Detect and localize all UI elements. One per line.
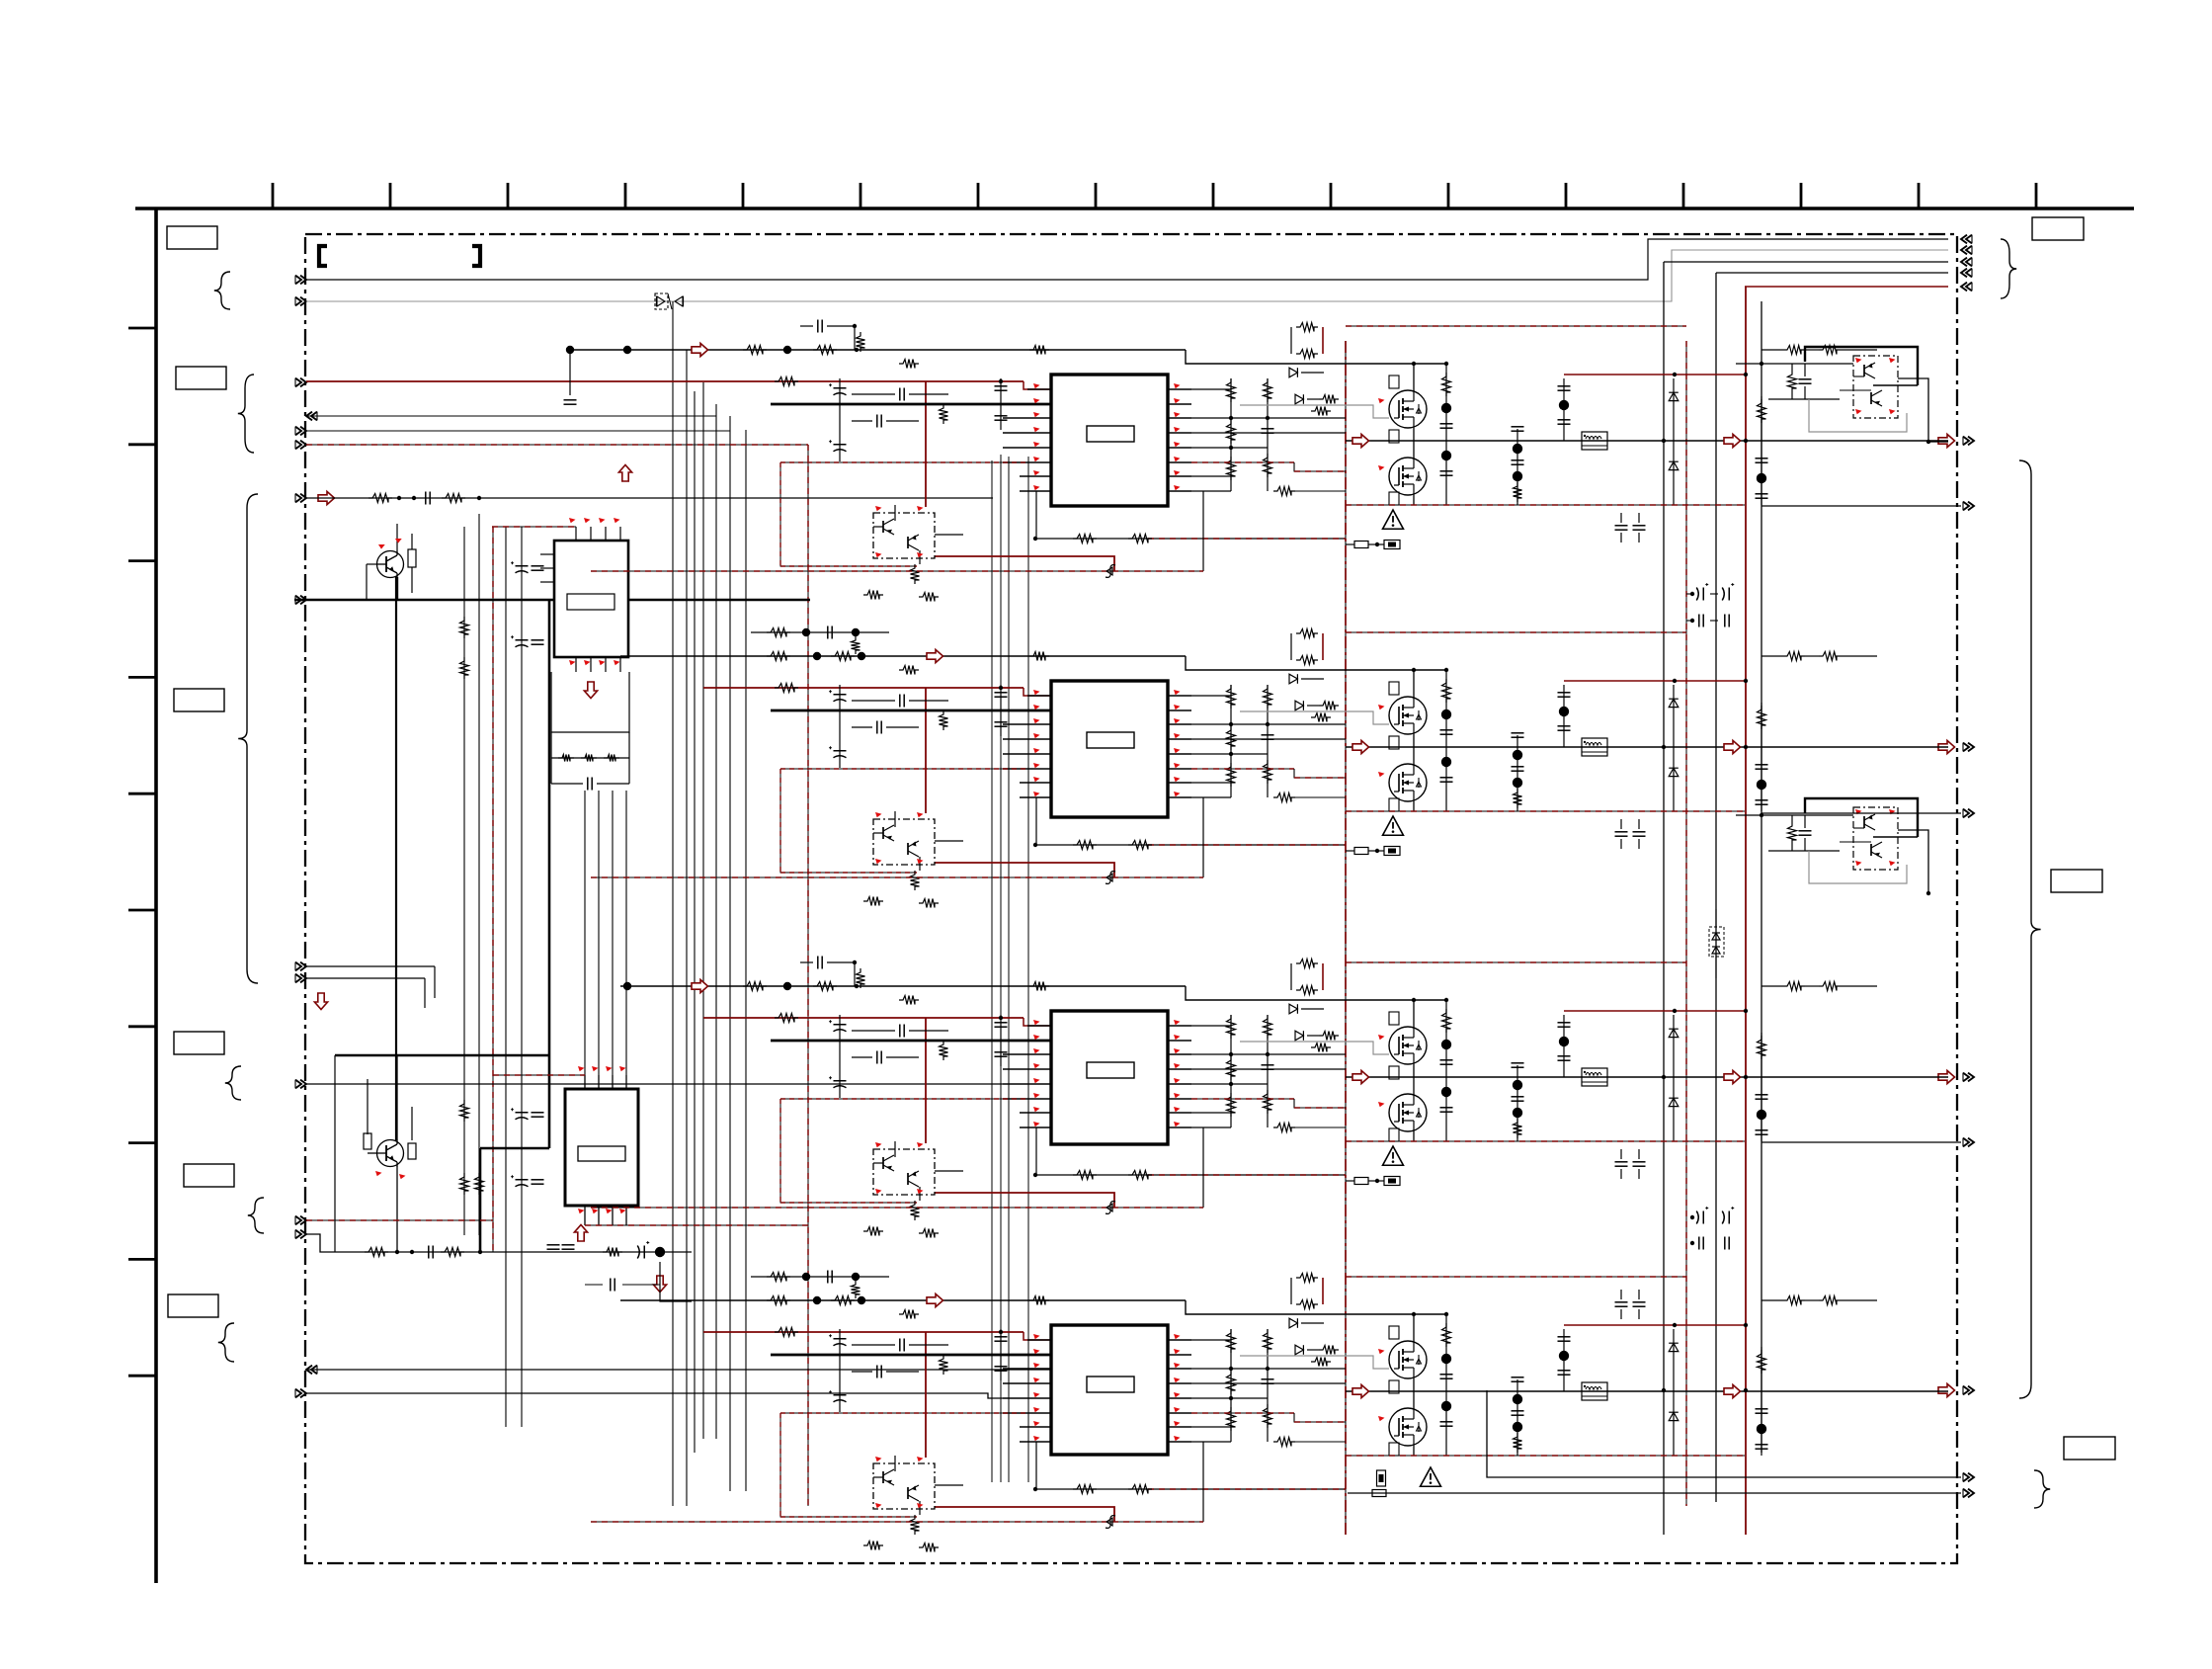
channel 3 transistor pair box bbox=[873, 1149, 935, 1195]
channel 1 fusible resistors bbox=[1354, 542, 1368, 548]
channel 3 snubber caps bbox=[1615, 1161, 1628, 1163]
bus line top 3 bbox=[1664, 261, 1948, 263]
channel 4 pre-driver diodes bbox=[1296, 1274, 1318, 1283]
U2 bottom pins bbox=[584, 1206, 586, 1225]
channel 1 maroon loop around driver pair bbox=[925, 381, 927, 507]
channel 1 output line bbox=[1346, 440, 1948, 442]
channel 2 zobel column 2 bbox=[1516, 735, 1518, 811]
B red dashed input bbox=[306, 1219, 493, 1221]
channel 1 pre-driver diodes bbox=[1296, 323, 1318, 332]
channel 4 IC pins bbox=[1027, 1339, 1051, 1341]
bus line top 1 bbox=[306, 239, 1948, 280]
channel 2 fusible resistors bbox=[1354, 848, 1368, 855]
channel 1 transistor pair box bbox=[873, 513, 935, 558]
B area e-caps bbox=[516, 1112, 529, 1114]
channel 3 zobel column 2 bbox=[1516, 1065, 1518, 1141]
channel 2 left e-caps bbox=[839, 685, 841, 768]
thick input line A bbox=[294, 599, 554, 602]
channel 4 zobel column 3 bbox=[1563, 1329, 1565, 1391]
channel 4 right pin wires bbox=[1191, 1339, 1231, 1341]
channel 2 right pin wires bbox=[1191, 695, 1231, 697]
input connectors ch3-4 bbox=[295, 1216, 301, 1225]
U2 red dashed feed bbox=[493, 1074, 585, 1076]
channel 3 IC pins bbox=[1027, 1025, 1051, 1027]
speaker relay 2 red ticks bbox=[1855, 809, 1862, 814]
red dashed rail mid bbox=[492, 527, 494, 1252]
black rail x1684 bbox=[1663, 262, 1665, 1535]
Q2 base resistor box bbox=[364, 1133, 371, 1149]
maroon rail x1767 bbox=[1745, 287, 1747, 1535]
channel 3 upper RC row bbox=[817, 957, 819, 969]
channel 3 thick bias line bbox=[771, 1040, 1051, 1043]
channel 3 power-amp IC bbox=[1051, 1011, 1168, 1144]
speaker relay 1 thick frame bbox=[1805, 347, 1918, 385]
driver block A input line bbox=[306, 497, 993, 499]
input connector ch1-2 audio in bbox=[295, 494, 301, 503]
channel 1 gate line gray bbox=[1240, 405, 1389, 418]
channel 2 snubber caps bbox=[1615, 831, 1628, 833]
channel 4 power-amp IC bbox=[1051, 1325, 1168, 1455]
channel 1 maroon link top bbox=[1564, 374, 1746, 376]
channel 1 warning mark bbox=[1383, 510, 1404, 529]
channel 1 right column passives bbox=[1761, 396, 1762, 505]
U1 top pins bbox=[575, 527, 577, 541]
channel 2 far right resistors bbox=[1783, 652, 1805, 661]
channel 2 output line bbox=[1346, 746, 1948, 748]
channel 1 power-amp IC bbox=[1051, 375, 1168, 506]
speaker relay 1 feed wires bbox=[1736, 363, 1853, 365]
bus line top 2 bbox=[306, 250, 1948, 301]
dual diode pack on line 2 bbox=[655, 293, 668, 309]
channel 3 left e-caps bbox=[839, 1015, 841, 1098]
main block dash-dot border bbox=[305, 234, 1957, 1563]
channel 2 right resistor columns bbox=[1230, 685, 1232, 797]
right second outputs bbox=[1761, 505, 1961, 507]
channel 4 output bead bbox=[1582, 1382, 1607, 1400]
channel 3 far right resistors bbox=[1783, 982, 1805, 991]
channel 1 upper RC row bbox=[817, 320, 819, 333]
channel 2 rail diodes bbox=[1673, 685, 1675, 811]
channel 1 left e-caps bbox=[839, 378, 841, 461]
channel 3 rail diodes bbox=[1673, 1015, 1675, 1141]
mid vertical bus bundle bbox=[672, 301, 674, 1506]
line in 417 bbox=[306, 415, 716, 417]
speaker relay 2 gray loop bbox=[1809, 851, 1907, 883]
bottom right output lines bbox=[1487, 1390, 1961, 1477]
channel 3 zobel column 3 bbox=[1563, 1015, 1565, 1077]
channel 1 dashed net top bbox=[1346, 325, 1686, 327]
channel 4 maroon drive line bbox=[703, 1331, 1024, 1333]
A area resistors bbox=[460, 617, 469, 638]
channel 2 dashed net top bbox=[1346, 631, 1686, 633]
speaker relay 1 red ticks bbox=[1855, 358, 1862, 363]
channel 1 thick bias line bbox=[771, 403, 1051, 406]
channel 2 upper RC row bbox=[751, 631, 889, 633]
speaker relay 1 dash-dot box bbox=[1853, 356, 1898, 418]
bottom right connectors bbox=[1963, 1473, 1969, 1482]
line in 438 bbox=[306, 430, 730, 432]
channel 2 zobel column 1 bbox=[1445, 670, 1447, 811]
speaker relay 2 dash-dot box bbox=[1853, 807, 1898, 870]
channel 4 dashed net bottom bbox=[1346, 1455, 1745, 1457]
channel 1 input line bbox=[620, 349, 1186, 351]
left margin braces bbox=[214, 272, 230, 309]
channel 2 dashed net bottom bbox=[1346, 810, 1745, 812]
channel 4 MOSFET upper bbox=[1389, 1341, 1427, 1378]
red dash-dot power rail left bbox=[1345, 341, 1347, 1535]
channel 2 warning mark bbox=[1383, 816, 1404, 835]
input connectors left group 2 bbox=[295, 378, 301, 387]
channel 4 zobel column 1 bbox=[1445, 1314, 1447, 1456]
channel 1 IC pins bbox=[1027, 388, 1051, 390]
channel 4 right column passives bbox=[1761, 1347, 1762, 1456]
channel 1 left caps bbox=[1000, 378, 1002, 430]
channel 3 pre-driver diodes bbox=[1296, 960, 1318, 968]
driver IC U1 bbox=[554, 541, 628, 657]
channel 4 MOSFET lower bbox=[1389, 1408, 1427, 1446]
channel 3 fusible resistors bbox=[1354, 1178, 1368, 1185]
channel 4 snubber caps bbox=[1615, 1301, 1628, 1303]
vertical bus right of left-blocks bbox=[463, 527, 465, 1235]
red dashed input ch1 bbox=[306, 444, 808, 446]
input connectors left top group bbox=[295, 276, 301, 285]
channel 4 maroon loop around driver pair bbox=[925, 1332, 927, 1458]
input transistor Q1 bbox=[377, 551, 404, 578]
speaker relay 2 output stub bbox=[1898, 830, 1928, 893]
B area resistors bbox=[460, 1100, 469, 1122]
channel 1 maroon drive line bbox=[306, 380, 1024, 382]
channel 4 left e-caps bbox=[839, 1329, 841, 1412]
top right e-cap bank bbox=[1702, 588, 1704, 601]
B vertical wires bbox=[334, 1055, 336, 1252]
channel 3 MOSFET upper bbox=[1389, 1027, 1427, 1064]
speaker relay 1 res cap bbox=[1788, 371, 1797, 392]
channel 4 output line bbox=[1346, 1390, 1948, 1392]
right mid e-cap bank 2 bbox=[1702, 1211, 1704, 1224]
channel 3 left caps bbox=[1000, 1015, 1002, 1066]
driver IC U2 bbox=[565, 1089, 638, 1206]
Q1 collector resistor bbox=[408, 549, 416, 567]
channel 1 zobel column 1 bbox=[1445, 364, 1447, 505]
page border ruler left bbox=[154, 209, 158, 1583]
output connectors right top group bbox=[1966, 235, 1972, 244]
channel 4 input line bbox=[620, 1299, 1186, 1301]
feedback RC box below U1 bbox=[551, 672, 629, 732]
channel 4 fusible resistors bbox=[1377, 1470, 1386, 1486]
right rail junction dots bbox=[1662, 439, 1666, 443]
right margin label boxes bbox=[2032, 217, 2084, 240]
speaker relay 1 gray loop bbox=[1809, 399, 1907, 432]
black rail x1783 bbox=[1761, 301, 1762, 1453]
U2 top pins bbox=[584, 1075, 586, 1089]
channel 1 zobel column 2 bbox=[1516, 429, 1518, 505]
channel 4 dashed net top bbox=[1346, 1276, 1686, 1278]
channel 4 far right resistors bbox=[1783, 1296, 1805, 1305]
page border ruler top bbox=[135, 207, 2134, 210]
speaker relay 1 transistor upper bbox=[1863, 365, 1865, 376]
red dashed into U1 bbox=[492, 526, 576, 528]
channel 2 MOSFET lower bbox=[1389, 764, 1427, 801]
U1 left pins bbox=[540, 553, 554, 555]
channel 2 power-amp IC bbox=[1051, 681, 1168, 817]
right margin braces bbox=[2001, 239, 2016, 298]
channel 4 transistor pair box bbox=[873, 1463, 935, 1509]
right dashed-dot border stub bbox=[1928, 441, 1948, 443]
channel 1 MOSFET upper bbox=[1389, 390, 1427, 428]
channel 4 warning mark bbox=[1421, 1467, 1441, 1486]
channel 2 MOSFET upper bbox=[1389, 697, 1427, 734]
channel 2 maroon loop around driver pair bbox=[925, 688, 927, 813]
channel 3 maroon link top bbox=[1564, 1010, 1746, 1012]
black rail x1737 bbox=[1715, 273, 1717, 1502]
channel 2 input line bbox=[620, 655, 1186, 657]
channel 2 output bead bbox=[1582, 738, 1607, 756]
channel 3 dashed net top bbox=[1346, 961, 1686, 963]
channel 3 maroon loop around driver pair bbox=[925, 1018, 927, 1143]
channel 3 right pin wires bbox=[1191, 1025, 1231, 1027]
channel 4 zobel column 2 bbox=[1516, 1379, 1518, 1456]
channel 4 feedback loop bbox=[1033, 1487, 1037, 1491]
B down arrow and route bbox=[653, 1276, 666, 1293]
speaker relay 2 thick frame bbox=[1805, 798, 1918, 837]
channel 3 gate line gray bbox=[1240, 1042, 1389, 1054]
channel 3 input line bbox=[620, 985, 1186, 987]
channel 3 maroon drive line bbox=[703, 1017, 1024, 1019]
channel 2 maroon drive line bbox=[703, 687, 1024, 689]
speaker relay 2 transistor lower bbox=[1870, 844, 1872, 856]
red dashed rail right bbox=[1685, 341, 1687, 1506]
channel 2 IC pins bbox=[1027, 695, 1051, 697]
channel 1 snubber caps bbox=[1615, 525, 1628, 527]
channel 3 output bead bbox=[1582, 1068, 1607, 1086]
channel 1 output bead bbox=[1582, 432, 1607, 450]
speaker relay 1 transistor lower bbox=[1870, 392, 1872, 404]
channel 1 source cap detail bbox=[566, 346, 574, 354]
A area e-caps bbox=[516, 565, 529, 567]
B lower inputs bbox=[306, 1369, 1051, 1371]
channel 1 rail diodes bbox=[1673, 378, 1675, 505]
channel 3 MOSFET lower bbox=[1389, 1094, 1427, 1131]
channel 3 warning mark bbox=[1383, 1146, 1404, 1165]
feedback columns x1021 x1041 bbox=[1008, 457, 1010, 1482]
channel 4 upper RC row bbox=[751, 1276, 889, 1278]
speaker relay 2 res cap bbox=[1788, 822, 1797, 844]
channel 2 gate line gray bbox=[1240, 711, 1389, 724]
channel 1 feedback loop bbox=[1033, 537, 1037, 541]
channel 3 right resistor columns bbox=[1230, 1015, 1232, 1127]
driver block B transistor Q2 bbox=[377, 1140, 404, 1167]
B input row bbox=[306, 1234, 585, 1252]
channel 4 gate line gray bbox=[1240, 1356, 1389, 1369]
channel 4 right resistor columns bbox=[1230, 1329, 1232, 1442]
channel 3 feedback loop bbox=[1033, 1173, 1037, 1177]
left margin label boxes bbox=[167, 226, 217, 249]
channel 1 far right resistors bbox=[1783, 346, 1805, 355]
channel 4 rail diodes bbox=[1673, 1329, 1675, 1456]
channel 2 left caps bbox=[1000, 685, 1002, 736]
channel 3 right column passives bbox=[1761, 1033, 1762, 1141]
speaker output connectors right bbox=[1938, 434, 1955, 447]
Q2 emitter resistor box bbox=[408, 1143, 416, 1159]
B feedback caps bbox=[547, 1244, 560, 1246]
channel 4 thick bias line bbox=[771, 1354, 1051, 1357]
channel 2 zobel column 3 bbox=[1563, 685, 1565, 747]
channel 2 transistor pair box bbox=[873, 819, 935, 865]
channel 2 right column passives bbox=[1761, 703, 1762, 811]
channel 2 thick bias line bbox=[771, 709, 1051, 712]
bus line top 4 bbox=[1716, 272, 1948, 274]
channel 2 pre-driver diodes bbox=[1296, 629, 1318, 638]
U1 bottom pins bbox=[575, 657, 577, 672]
channel 1 zobel column 3 bbox=[1563, 378, 1565, 441]
U2 pin rails down from block A bbox=[584, 791, 586, 1075]
bus line top maroon bbox=[1745, 286, 1948, 288]
mid-page jumper diode pair bbox=[1709, 927, 1724, 957]
speaker relay 2 transistor upper bbox=[1863, 816, 1865, 828]
channel 1 MOSFET lower bbox=[1389, 458, 1427, 495]
B input row right part bbox=[585, 1251, 692, 1253]
channel 2 maroon link top bbox=[1564, 680, 1746, 682]
channel 1 dashed net bottom bbox=[1346, 504, 1745, 506]
channel 3 output line bbox=[1346, 1076, 1948, 1078]
U2 bottom red dash to ch4 bbox=[585, 1224, 808, 1226]
channel 3 zobel column 1 bbox=[1445, 1000, 1447, 1141]
speaker relay 1 output stub bbox=[1898, 378, 1928, 442]
connectors bottom left bbox=[311, 1366, 317, 1375]
channel 3 dashed net bottom bbox=[1346, 1140, 1745, 1142]
block title brackets bbox=[319, 246, 327, 266]
channel 4 left caps bbox=[1000, 1329, 1002, 1380]
thick rail net B bbox=[335, 1054, 549, 1057]
speaker relay 2 feed wires bbox=[1736, 814, 1853, 816]
channel 2 feedback loop bbox=[1033, 843, 1037, 847]
channel 1 right resistor columns bbox=[1230, 378, 1232, 491]
input connectors mid low bbox=[295, 962, 301, 971]
channel 4 maroon link top bbox=[1564, 1324, 1746, 1326]
thick rail from driver Q bbox=[395, 576, 397, 1140]
channel 1 right pin wires bbox=[1191, 388, 1231, 390]
